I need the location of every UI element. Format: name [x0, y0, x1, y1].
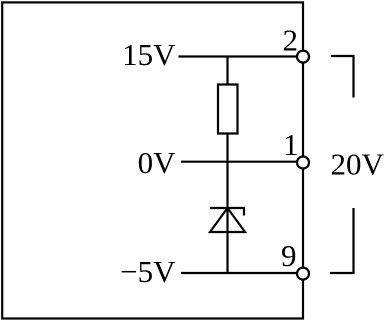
wire 15V rail	[179, 55, 299, 57]
bracket bottom (20V measurement, lower)	[330, 208, 354, 273]
svg-text:−5V: −5V	[120, 254, 176, 289]
svg-text:2: 2	[283, 23, 299, 58]
wire 0V rail	[181, 161, 298, 163]
terminal 1	[297, 157, 309, 169]
svg-text:1: 1	[283, 127, 299, 162]
wire -5V rail	[181, 272, 298, 274]
svg-text:0V: 0V	[138, 145, 177, 180]
svg-text:20V: 20V	[331, 147, 385, 182]
svg-text:9: 9	[281, 238, 297, 273]
box outline (circuit block)	[2, 2, 303, 318]
svg-text:15V: 15V	[122, 37, 176, 72]
wire vertical branch (15V to resistor)	[226, 57, 228, 85]
resistor R	[218, 85, 238, 134]
bracket top (20V measurement, upper)	[331, 56, 354, 98]
zener diode cathode bar	[210, 208, 244, 216]
wire vertical branch (resistor to -5V rail)	[226, 134, 228, 274]
terminal 9	[297, 268, 309, 280]
terminal 2	[297, 51, 309, 63]
zener diode triangle	[210, 208, 245, 232]
